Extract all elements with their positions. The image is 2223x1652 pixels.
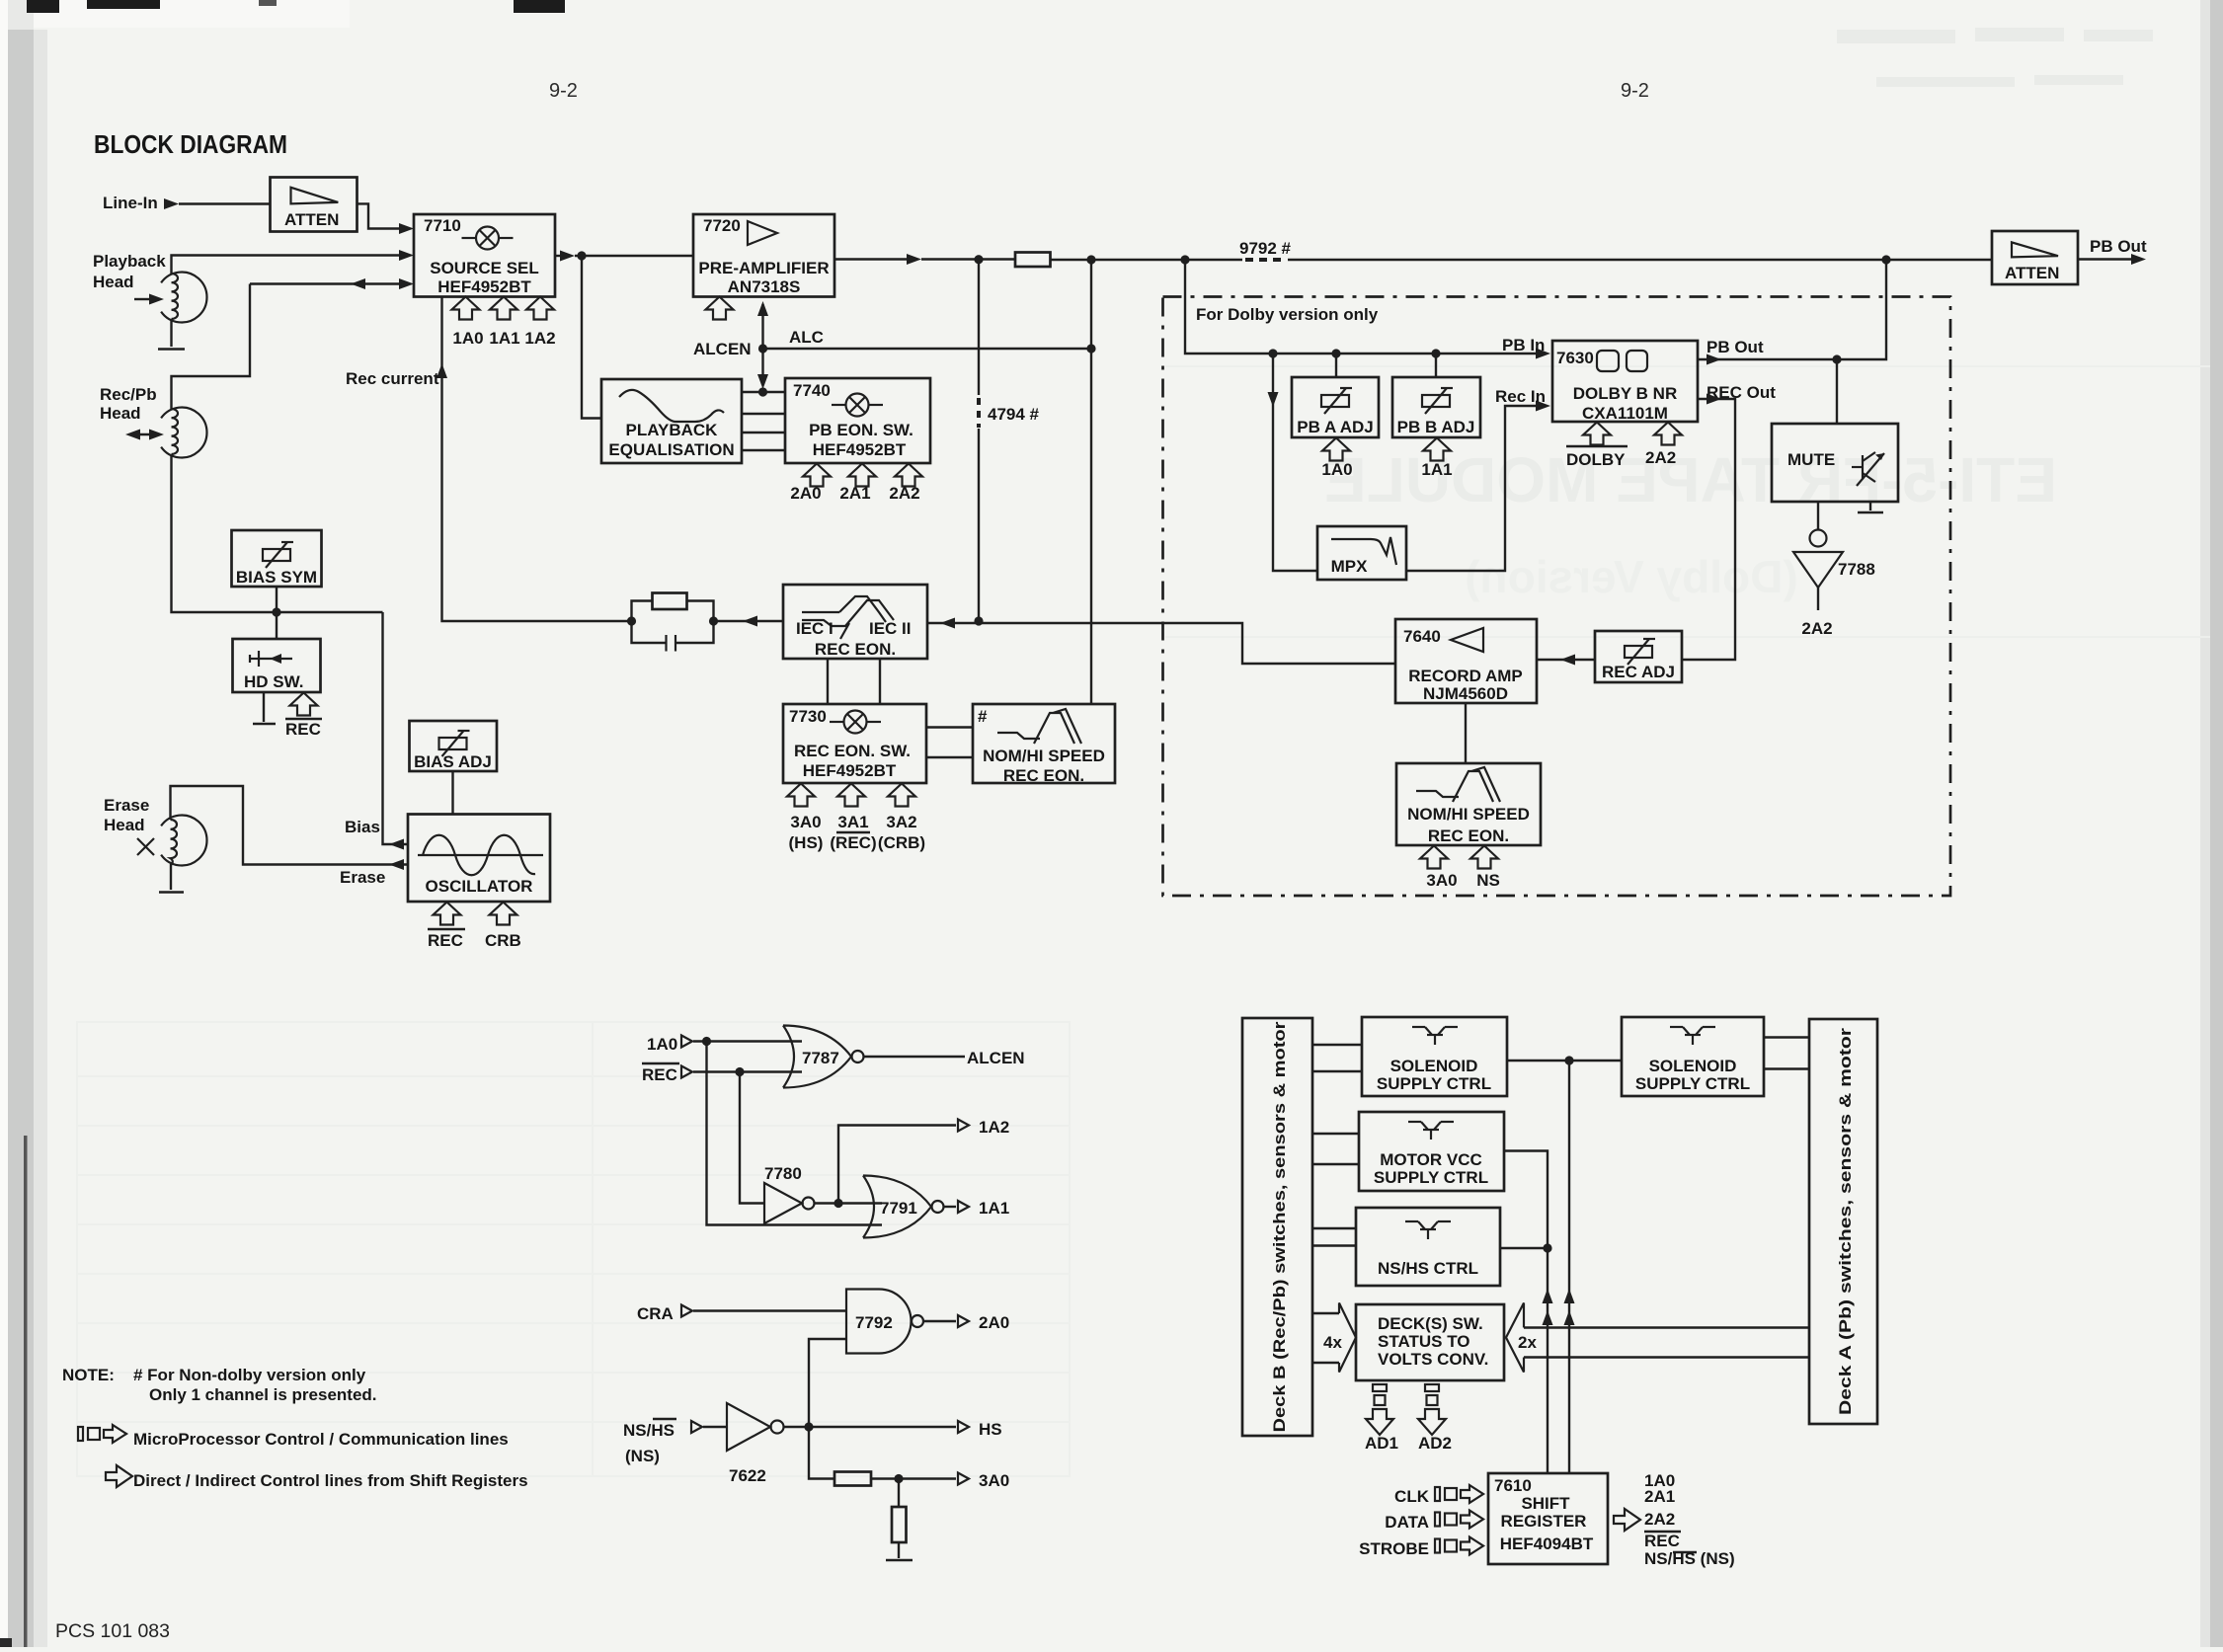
- svg-text:REC EON. SW.: REC EON. SW.: [794, 742, 911, 760]
- svg-text:2A2: 2A2: [1801, 619, 1832, 638]
- svg-text:4x: 4x: [1323, 1333, 1342, 1352]
- svg-text:HD SW.: HD SW.: [244, 672, 303, 691]
- svg-text:SOURCE SEL: SOURCE SEL: [430, 259, 539, 277]
- svg-text:# For Non-dolby version only: # For Non-dolby version only: [133, 1366, 366, 1384]
- svg-text:1A1: 1A1: [489, 329, 519, 348]
- svg-text:SUPPLY CTRL: SUPPLY CTRL: [1377, 1074, 1491, 1093]
- svg-text:HEF4952BT: HEF4952BT: [813, 440, 907, 459]
- svg-text:RECORD AMP: RECORD AMP: [1408, 667, 1523, 685]
- svg-text:Line-In: Line-In: [103, 194, 158, 212]
- svg-text:1A0: 1A0: [452, 329, 483, 348]
- svg-text:1A0: 1A0: [1321, 460, 1352, 479]
- svg-text:(REC): (REC): [830, 833, 876, 852]
- svg-text:REC: REC: [428, 931, 463, 950]
- svg-text:NOTE:: NOTE:: [62, 1366, 115, 1384]
- svg-text:HS: HS: [979, 1420, 1002, 1439]
- svg-text:1A2: 1A2: [979, 1118, 1009, 1137]
- svg-text:7740: 7740: [793, 381, 831, 400]
- svg-text:7610: 7610: [1494, 1476, 1532, 1495]
- svg-text:DOLBY: DOLBY: [1566, 450, 1626, 469]
- svg-text:3A1: 3A1: [837, 813, 868, 831]
- svg-text:PB Out: PB Out: [2090, 237, 2147, 256]
- svg-text:Only 1 channel is presented.: Only 1 channel is presented.: [149, 1385, 377, 1404]
- svg-text:REC EON.: REC EON.: [1003, 766, 1084, 785]
- svg-text:Rec In: Rec In: [1495, 387, 1546, 406]
- svg-text:3A0: 3A0: [790, 813, 821, 831]
- svg-text:3A2: 3A2: [886, 813, 916, 831]
- svg-text:4794 #: 4794 #: [988, 405, 1040, 424]
- svg-text:SOLENOID: SOLENOID: [1390, 1057, 1478, 1075]
- svg-text:DOLBY B NR: DOLBY B NR: [1573, 384, 1677, 403]
- svg-text:DATA: DATA: [1385, 1513, 1429, 1532]
- svg-text:SUPPLY CTRL: SUPPLY CTRL: [1374, 1168, 1488, 1187]
- svg-text:STROBE: STROBE: [1359, 1539, 1429, 1558]
- svg-text:7792: 7792: [855, 1313, 893, 1332]
- svg-text:VOLTS CONV.: VOLTS CONV.: [1378, 1350, 1488, 1369]
- svg-text:NJM4560D: NJM4560D: [1423, 684, 1508, 703]
- svg-text:2x: 2x: [1518, 1333, 1537, 1352]
- svg-text:9-2: 9-2: [1621, 80, 1649, 102]
- svg-text:NS: NS: [1476, 871, 1500, 890]
- svg-text:7787: 7787: [802, 1049, 839, 1067]
- svg-text:Erase: Erase: [104, 796, 149, 815]
- svg-text:Playback: Playback: [93, 252, 166, 271]
- svg-text:Head: Head: [93, 273, 134, 291]
- svg-text:MOTOR VCC: MOTOR VCC: [1380, 1150, 1482, 1169]
- svg-text:For Dolby version only: For Dolby version only: [1196, 305, 1379, 324]
- svg-text:Deck B (Rec/Pb) switches, sens: Deck B (Rec/Pb) switches, sensors & moto…: [1270, 1021, 1289, 1432]
- svg-text:9792 #: 9792 #: [1239, 239, 1292, 258]
- svg-text:2A2: 2A2: [1644, 1510, 1675, 1529]
- svg-text:AD2: AD2: [1418, 1434, 1452, 1453]
- svg-text:ATTEN: ATTEN: [284, 210, 339, 229]
- svg-text:BLOCK DIAGRAM: BLOCK DIAGRAM: [94, 129, 287, 159]
- svg-text:ETI-5-FR TAPE MODULE: ETI-5-FR TAPE MODULE: [1324, 444, 2057, 515]
- svg-text:HEF4094BT: HEF4094BT: [1500, 1534, 1594, 1553]
- svg-text:2A0: 2A0: [790, 484, 821, 503]
- svg-text:Direct / Indirect Control line: Direct / Indirect Control lines from Shi…: [133, 1471, 528, 1490]
- svg-text:IEC II: IEC II: [869, 619, 912, 638]
- svg-text:7622: 7622: [729, 1466, 766, 1485]
- svg-text:ALCEN: ALCEN: [693, 340, 752, 358]
- svg-text:7720: 7720: [703, 216, 741, 235]
- svg-text:PB A ADJ: PB A ADJ: [1297, 418, 1373, 436]
- svg-text:(HS): (HS): [789, 833, 824, 852]
- svg-text:REC EON.: REC EON.: [1428, 826, 1509, 845]
- svg-text:2A0: 2A0: [979, 1313, 1009, 1332]
- svg-text:CRA: CRA: [637, 1304, 674, 1323]
- svg-text:2A1: 2A1: [1644, 1487, 1675, 1506]
- svg-text:NS/HS: NS/HS: [623, 1421, 675, 1440]
- svg-text:PB Out: PB Out: [1707, 338, 1764, 356]
- svg-text:MPX: MPX: [1331, 557, 1369, 576]
- svg-text:CXA1101M: CXA1101M: [1582, 404, 1668, 423]
- svg-text:REC: REC: [1644, 1532, 1680, 1550]
- svg-text:2A1: 2A1: [839, 484, 870, 503]
- svg-text:NOM/HI SPEED: NOM/HI SPEED: [1407, 805, 1530, 824]
- svg-text:IEC I: IEC I: [796, 619, 834, 638]
- svg-text:ALCEN: ALCEN: [967, 1049, 1025, 1067]
- svg-text:3A0: 3A0: [1426, 871, 1457, 890]
- svg-text:SOLENOID: SOLENOID: [1649, 1057, 1737, 1075]
- svg-text:7640: 7640: [1403, 627, 1441, 646]
- svg-text:NS/HS (NS): NS/HS (NS): [1644, 1549, 1735, 1568]
- svg-text:1A2: 1A2: [524, 329, 555, 348]
- svg-text:1A0: 1A0: [647, 1035, 677, 1054]
- svg-text:PCS 101 083: PCS 101 083: [55, 1620, 170, 1642]
- svg-text:SUPPLY CTRL: SUPPLY CTRL: [1635, 1074, 1750, 1093]
- svg-text:Rec/Pb: Rec/Pb: [100, 385, 157, 404]
- svg-text:PLAYBACK: PLAYBACK: [626, 421, 719, 439]
- svg-text:PRE-AMPLIFIER: PRE-AMPLIFIER: [698, 259, 829, 277]
- svg-text:7780: 7780: [764, 1164, 802, 1183]
- svg-text:DECK(S) SW.: DECK(S) SW.: [1378, 1314, 1483, 1333]
- svg-text:PB In: PB In: [1502, 336, 1545, 354]
- svg-text:2A2: 2A2: [1645, 448, 1676, 467]
- svg-text:REC EON.: REC EON.: [815, 640, 896, 659]
- svg-text:7710: 7710: [424, 216, 461, 235]
- svg-text:Rec current: Rec current: [346, 369, 439, 388]
- svg-text:1A1: 1A1: [1421, 460, 1452, 479]
- svg-text:OSCILLATOR: OSCILLATOR: [426, 877, 533, 896]
- svg-text:Head: Head: [100, 404, 141, 423]
- svg-text:BIAS SYM: BIAS SYM: [236, 568, 317, 587]
- svg-text:#: #: [978, 707, 988, 726]
- svg-text:BIAS ADJ: BIAS ADJ: [414, 752, 492, 771]
- svg-text:REC ADJ: REC ADJ: [1602, 663, 1675, 681]
- svg-text:HEF4952BT: HEF4952BT: [437, 277, 531, 296]
- svg-text:7730: 7730: [789, 707, 827, 726]
- svg-text:1A1: 1A1: [979, 1199, 1009, 1218]
- svg-text:HEF4952BT: HEF4952BT: [803, 761, 897, 780]
- svg-text:REGISTER: REGISTER: [1501, 1512, 1587, 1531]
- svg-text:Bias: Bias: [345, 818, 380, 836]
- svg-text:NS/HS CTRL: NS/HS CTRL: [1378, 1259, 1478, 1278]
- svg-text:(Dolby Version): (Dolby Version): [1465, 551, 1797, 602]
- svg-text:REC: REC: [642, 1065, 677, 1084]
- svg-text:ALC: ALC: [789, 328, 824, 347]
- svg-text:PB B ADJ: PB B ADJ: [1397, 418, 1475, 436]
- svg-text:CLK: CLK: [1394, 1487, 1430, 1506]
- svg-text:Head: Head: [104, 816, 145, 834]
- svg-text:9-2: 9-2: [549, 80, 578, 102]
- svg-text:CRB: CRB: [485, 931, 521, 950]
- svg-text:MUTE: MUTE: [1787, 450, 1835, 469]
- svg-text:STATUS TO: STATUS TO: [1378, 1332, 1470, 1351]
- svg-text:PB EON. SW.: PB EON. SW.: [809, 421, 913, 439]
- svg-text:Deck A (Pb) switches, sensors: Deck A (Pb) switches, sensors & motor: [1836, 1028, 1855, 1415]
- svg-text:3A0: 3A0: [979, 1471, 1009, 1490]
- svg-text:AD1: AD1: [1365, 1434, 1398, 1453]
- svg-text:ATTEN: ATTEN: [2005, 264, 2059, 282]
- svg-text:EQUALISATION: EQUALISATION: [608, 440, 734, 459]
- svg-text:AN7318S: AN7318S: [728, 277, 801, 296]
- svg-text:7788: 7788: [1838, 560, 1875, 579]
- svg-text:Erase: Erase: [340, 868, 385, 887]
- svg-text:2A2: 2A2: [889, 484, 919, 503]
- svg-text:REC: REC: [285, 720, 321, 739]
- svg-text:(CRB): (CRB): [878, 833, 925, 852]
- svg-text:7791: 7791: [880, 1199, 917, 1218]
- svg-text:(NS): (NS): [625, 1447, 660, 1465]
- svg-text:MicroProcessor Control / Commu: MicroProcessor Control / Communication l…: [133, 1430, 509, 1449]
- svg-text:7630: 7630: [1556, 349, 1594, 367]
- svg-text:SHIFT: SHIFT: [1521, 1494, 1570, 1513]
- svg-text:NOM/HI SPEED: NOM/HI SPEED: [983, 747, 1105, 765]
